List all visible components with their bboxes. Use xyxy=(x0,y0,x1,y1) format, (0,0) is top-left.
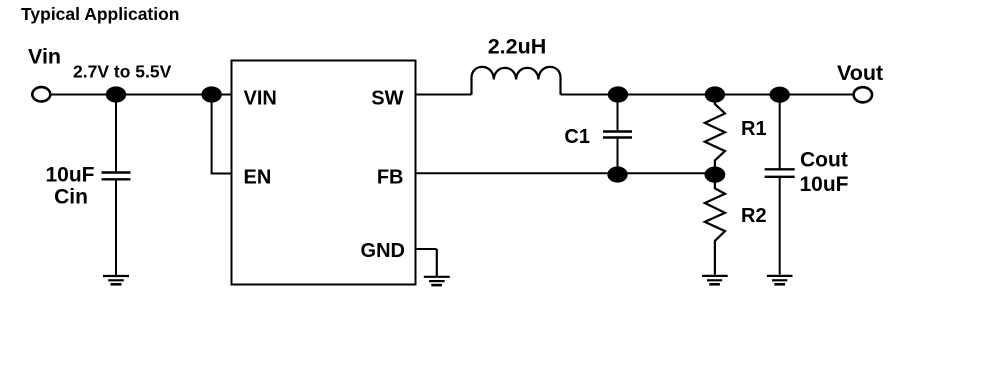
ground Cin xyxy=(103,276,129,284)
node EN junction xyxy=(201,86,221,102)
svg-text:R1: R1 xyxy=(741,118,767,140)
wire Cin bottom xyxy=(115,179,117,275)
svg-text:10uF: 10uF xyxy=(800,173,849,196)
svg-text:VIN: VIN xyxy=(244,88,277,110)
wire C1 bottom xyxy=(617,138,619,175)
capacitor Cin xyxy=(102,173,131,180)
wire Vin to VIN pin xyxy=(50,94,232,96)
svg-text:C1: C1 xyxy=(564,126,590,148)
wire FB line xyxy=(416,172,716,174)
svg-text:R2: R2 xyxy=(741,205,767,227)
svg-text:2.2uH: 2.2uH xyxy=(488,34,547,58)
wire C1 top xyxy=(617,95,619,132)
wire inductor to Vout xyxy=(561,94,853,96)
svg-text:SW: SW xyxy=(371,88,403,110)
resistor R2 xyxy=(705,175,725,275)
ground GND pin xyxy=(424,277,450,285)
node Cin junction xyxy=(106,86,126,102)
terminal Vout xyxy=(854,87,872,102)
wire EN horizontal xyxy=(211,173,232,175)
terminal Vin xyxy=(32,87,50,101)
capacitor Cout xyxy=(765,169,795,177)
wire EN vertical xyxy=(211,95,213,174)
svg-text:Cout: Cout xyxy=(800,149,848,172)
node C1 top junction xyxy=(608,86,628,102)
wire GND pin vertical xyxy=(436,249,438,276)
node C1 bottom junction xyxy=(607,166,627,182)
node R1 top junction xyxy=(705,86,725,102)
svg-text:EN: EN xyxy=(244,167,272,189)
resistor R1 xyxy=(705,95,725,174)
wire Cin top xyxy=(115,95,117,173)
svg-text:2.7V to 5.5V: 2.7V to 5.5V xyxy=(73,62,172,82)
svg-text:Vout: Vout xyxy=(837,61,883,85)
capacitor C1 xyxy=(603,132,632,138)
svg-text:Vin: Vin xyxy=(28,45,61,69)
svg-text:10uF: 10uF xyxy=(45,164,94,187)
svg-text:Cin: Cin xyxy=(54,186,88,209)
svg-text:Typical Application: Typical Application xyxy=(21,4,180,24)
svg-text:GND: GND xyxy=(361,240,405,262)
inductor L1 2.2uH xyxy=(472,67,561,95)
wire Cout bottom xyxy=(779,177,781,275)
node Cout junction xyxy=(770,87,790,103)
ground R2 xyxy=(702,276,728,284)
op-amp U1 (regulator IC box) xyxy=(232,61,416,285)
node R1 R2 FB junction xyxy=(705,167,726,183)
wire SW to inductor xyxy=(416,94,472,96)
wire GND pin horizontal xyxy=(416,248,437,250)
wire Cout top xyxy=(779,95,781,170)
ground Cout xyxy=(767,276,793,284)
svg-text:FB: FB xyxy=(377,167,404,189)
